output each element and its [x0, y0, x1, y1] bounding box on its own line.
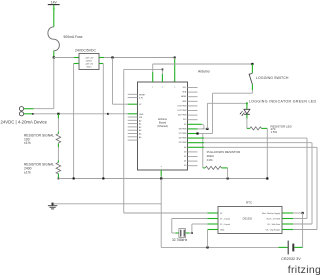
wire resistor led down to gnd rail — [261, 128, 268, 179]
svg-text:D0: D0 — [184, 165, 186, 167]
ground symbol — [48, 204, 57, 209]
svg-text:Arduino: Arduino — [158, 117, 168, 121]
node rail/branch junction — [111, 56, 113, 58]
svg-text:A2: A2 — [139, 126, 141, 129]
svg-text:Vbat - Backup Supply: Vbat - Backup Supply — [262, 212, 280, 215]
arduino top pin1 labels — [152, 86, 175, 168]
RTC U3 box — [218, 201, 282, 234]
power flag 14V — [48, 0, 60, 4]
wire branch down to arduino left 5V pin — [113, 58, 138, 105]
svg-text:A5: A5 — [139, 136, 141, 139]
svg-text:x: x — [161, 166, 162, 168]
wire arduino top pin2 to 5V branch — [124, 69, 164, 83]
switch S1 logging — [249, 63, 254, 93]
svg-text:DS1302: DS1302 — [243, 216, 253, 220]
converter U2 24VDC/5VDC — [75, 49, 99, 70]
svg-text:D10: D10 — [183, 119, 186, 121]
LED D1 green indicator — [240, 103, 250, 116]
svg-text:x: x — [162, 86, 163, 88]
svg-text:CR2032 3V: CR2032 3V — [281, 257, 301, 261]
svg-text:(Shared): (Shared) — [157, 124, 168, 128]
wire connector pin1 to +24 rail — [24, 108, 54, 110]
wire arduino top pin1 to switch top — [153, 64, 253, 82]
wire R2 bottom to gnd rail — [58, 174, 60, 180]
svg-text:SCL: SCL — [183, 87, 187, 89]
svg-text:x: x — [152, 86, 153, 88]
wire DCDC right top pin rail to arduino — [99, 57, 175, 59]
svg-text:1.5%: 1.5% — [271, 130, 278, 134]
svg-text:D8 PWM: D8 PWM — [179, 128, 187, 130]
battery BT1 CR2032 — [281, 241, 301, 261]
fuse F1 500mA — [48, 27, 83, 51]
svg-text:32.768kHz: 32.768kHz — [172, 238, 188, 242]
svg-text:LOGGING INDICATOR GREEN LED: LOGGING INDICATOR GREEN LED — [249, 99, 317, 103]
wire DCDC right bottom pin down to gnd rail — [99, 64, 103, 179]
svg-text:x: x — [174, 86, 175, 88]
wire tap down to R1 — [57, 114, 59, 134]
svg-text:D6 PWM: D6 PWM — [179, 138, 187, 140]
wire switch bottom to arduino right pin — [188, 93, 253, 134]
wire fuse to node — [53, 51, 55, 58]
svg-text:D4: D4 — [184, 147, 186, 149]
connector J1 pin circles — [19, 107, 23, 116]
crystal Y1 32.768kHz — [172, 229, 188, 242]
node fuse/dcdc junction — [53, 56, 55, 58]
wire arduino pin jog to lower row — [188, 124, 205, 129]
wire 14V to fuse — [53, 5, 55, 27]
wire RTC gnd down to bottom rail — [208, 230, 219, 248]
wire LED drop to junction — [206, 102, 248, 130]
svg-text:D7 PWM: D7 PWM — [179, 133, 187, 135]
wire RTC vcc2 right pin — [282, 212, 303, 214]
svg-text:LOGGING SWITCH: LOGGING SWITCH — [256, 76, 289, 80]
svg-text:D3: D3 — [184, 151, 186, 153]
svg-text:Board: Board — [159, 120, 167, 124]
svg-text:D2: D2 — [184, 156, 186, 158]
svg-text:±1%: ±1% — [207, 158, 213, 162]
svg-text:5VDC: 5VDC — [86, 67, 92, 69]
wire R1 to R2 — [57, 144, 59, 163]
svg-text:±1%: ±1% — [24, 141, 31, 145]
svg-text:D11 PWM: D11 PWM — [178, 115, 187, 117]
arduino left pin labels — [139, 94, 146, 139]
wire arduino pin to RTC wire2 — [188, 138, 308, 218]
wire arduino pin to RTC wire3 — [188, 143, 313, 224]
arduino U1 box — [138, 82, 188, 170]
resistor R4 pulldown 20k — [205, 150, 241, 169]
wire pulldown to gnd rail — [221, 168, 227, 179]
svg-text:I/O - Shift Data: I/O - Shift Data — [267, 223, 280, 226]
svg-text:AREF: AREF — [181, 95, 187, 98]
wire node to DCDC left top pin — [54, 57, 79, 59]
svg-text:GND: GND — [182, 101, 187, 103]
svg-text:A0: A0 — [139, 119, 141, 122]
svg-text:D13 PWM: D13 PWM — [178, 105, 187, 107]
svg-text:X2 - Crystal: X2 - Crystal — [220, 223, 230, 226]
svg-text:500mA Fuse: 500mA Fuse — [64, 35, 83, 39]
arduino left pins — [128, 94, 138, 140]
resistor R3 led 470 — [250, 124, 292, 134]
ground rail horizontal — [52, 203, 162, 205]
svg-text:24VDC: 24VDC — [86, 61, 93, 63]
wire RTC X2 to crystal — [186, 224, 218, 234]
svg-text:D5 PWM: D5 PWM — [179, 142, 187, 144]
svg-text:24VDC | 4-20mA Device: 24VDC | 4-20mA Device — [1, 120, 48, 125]
resistor R2 signal 2400 — [24, 162, 61, 174]
wire connector pin2 to arduino gnd — [24, 113, 138, 115]
svg-text:A1: A1 — [139, 123, 141, 126]
svg-text:D12 PWM: D12 PWM — [178, 110, 187, 112]
svg-text:+24V +5V: +24V +5V — [85, 57, 95, 59]
svg-text:fritzing: fritzing — [288, 264, 320, 275]
svg-text:D9: D9 — [184, 124, 186, 126]
svg-text:SCLK - I/O Shift: SCLK - I/O Shift — [267, 217, 281, 220]
bottom rail to battery — [161, 246, 287, 248]
node resistor chain tap — [57, 113, 59, 115]
svg-text:GND: GND — [139, 114, 144, 116]
wire RTC X1 to crystal — [172, 219, 218, 234]
wire node down to connector pin 1 — [53, 58, 55, 109]
svg-text:CE - Chip Enable: CE - Chip Enable — [265, 229, 280, 231]
RTC left pin labels — [220, 213, 230, 232]
svg-text:A4: A4 — [139, 133, 141, 136]
svg-text:D1: D1 — [184, 161, 186, 163]
svg-text:14V: 14V — [51, 0, 58, 4]
RTC right pin labels — [262, 212, 281, 232]
resistor R1 signal 100 — [24, 133, 61, 145]
arduino right pin labels — [178, 87, 187, 167]
arduino right pins gray — [188, 88, 198, 166]
wire arduino bottom pin to rails — [160, 170, 162, 247]
wire pulldown drop to resistor — [203, 134, 205, 168]
svg-text:GND: GND — [220, 229, 225, 231]
wire arduino pin to RTC wire4 — [188, 147, 318, 229]
wire gnd rail horizontal — [58, 177, 267, 179]
svg-text:24VDC/5VDC: 24VDC/5VDC — [75, 49, 96, 53]
svg-text:Arduino: Arduino — [198, 69, 210, 73]
node rail corner — [174, 57, 176, 59]
wire DCDC left bottom pin to gnd rail — [74, 64, 79, 179]
svg-text:X1 - Crystal: X1 - Crystal — [220, 217, 230, 220]
svg-text:±1%: ±1% — [24, 170, 31, 174]
svg-text:RTC: RTC — [246, 201, 253, 205]
wire 5V branch down to RTC vcc — [124, 69, 218, 213]
wire rail corner down to arduino top pin 3 — [174, 58, 176, 83]
svg-text:RESET: RESET — [139, 94, 146, 96]
wire arduino pin row to LED junction — [188, 128, 208, 130]
svg-text:-24V -5V: -24V -5V — [85, 63, 94, 65]
wire RTC vcc2 to battery — [294, 212, 303, 248]
svg-text:A3: A3 — [139, 129, 141, 132]
wire LED to resistor led — [247, 114, 250, 128]
